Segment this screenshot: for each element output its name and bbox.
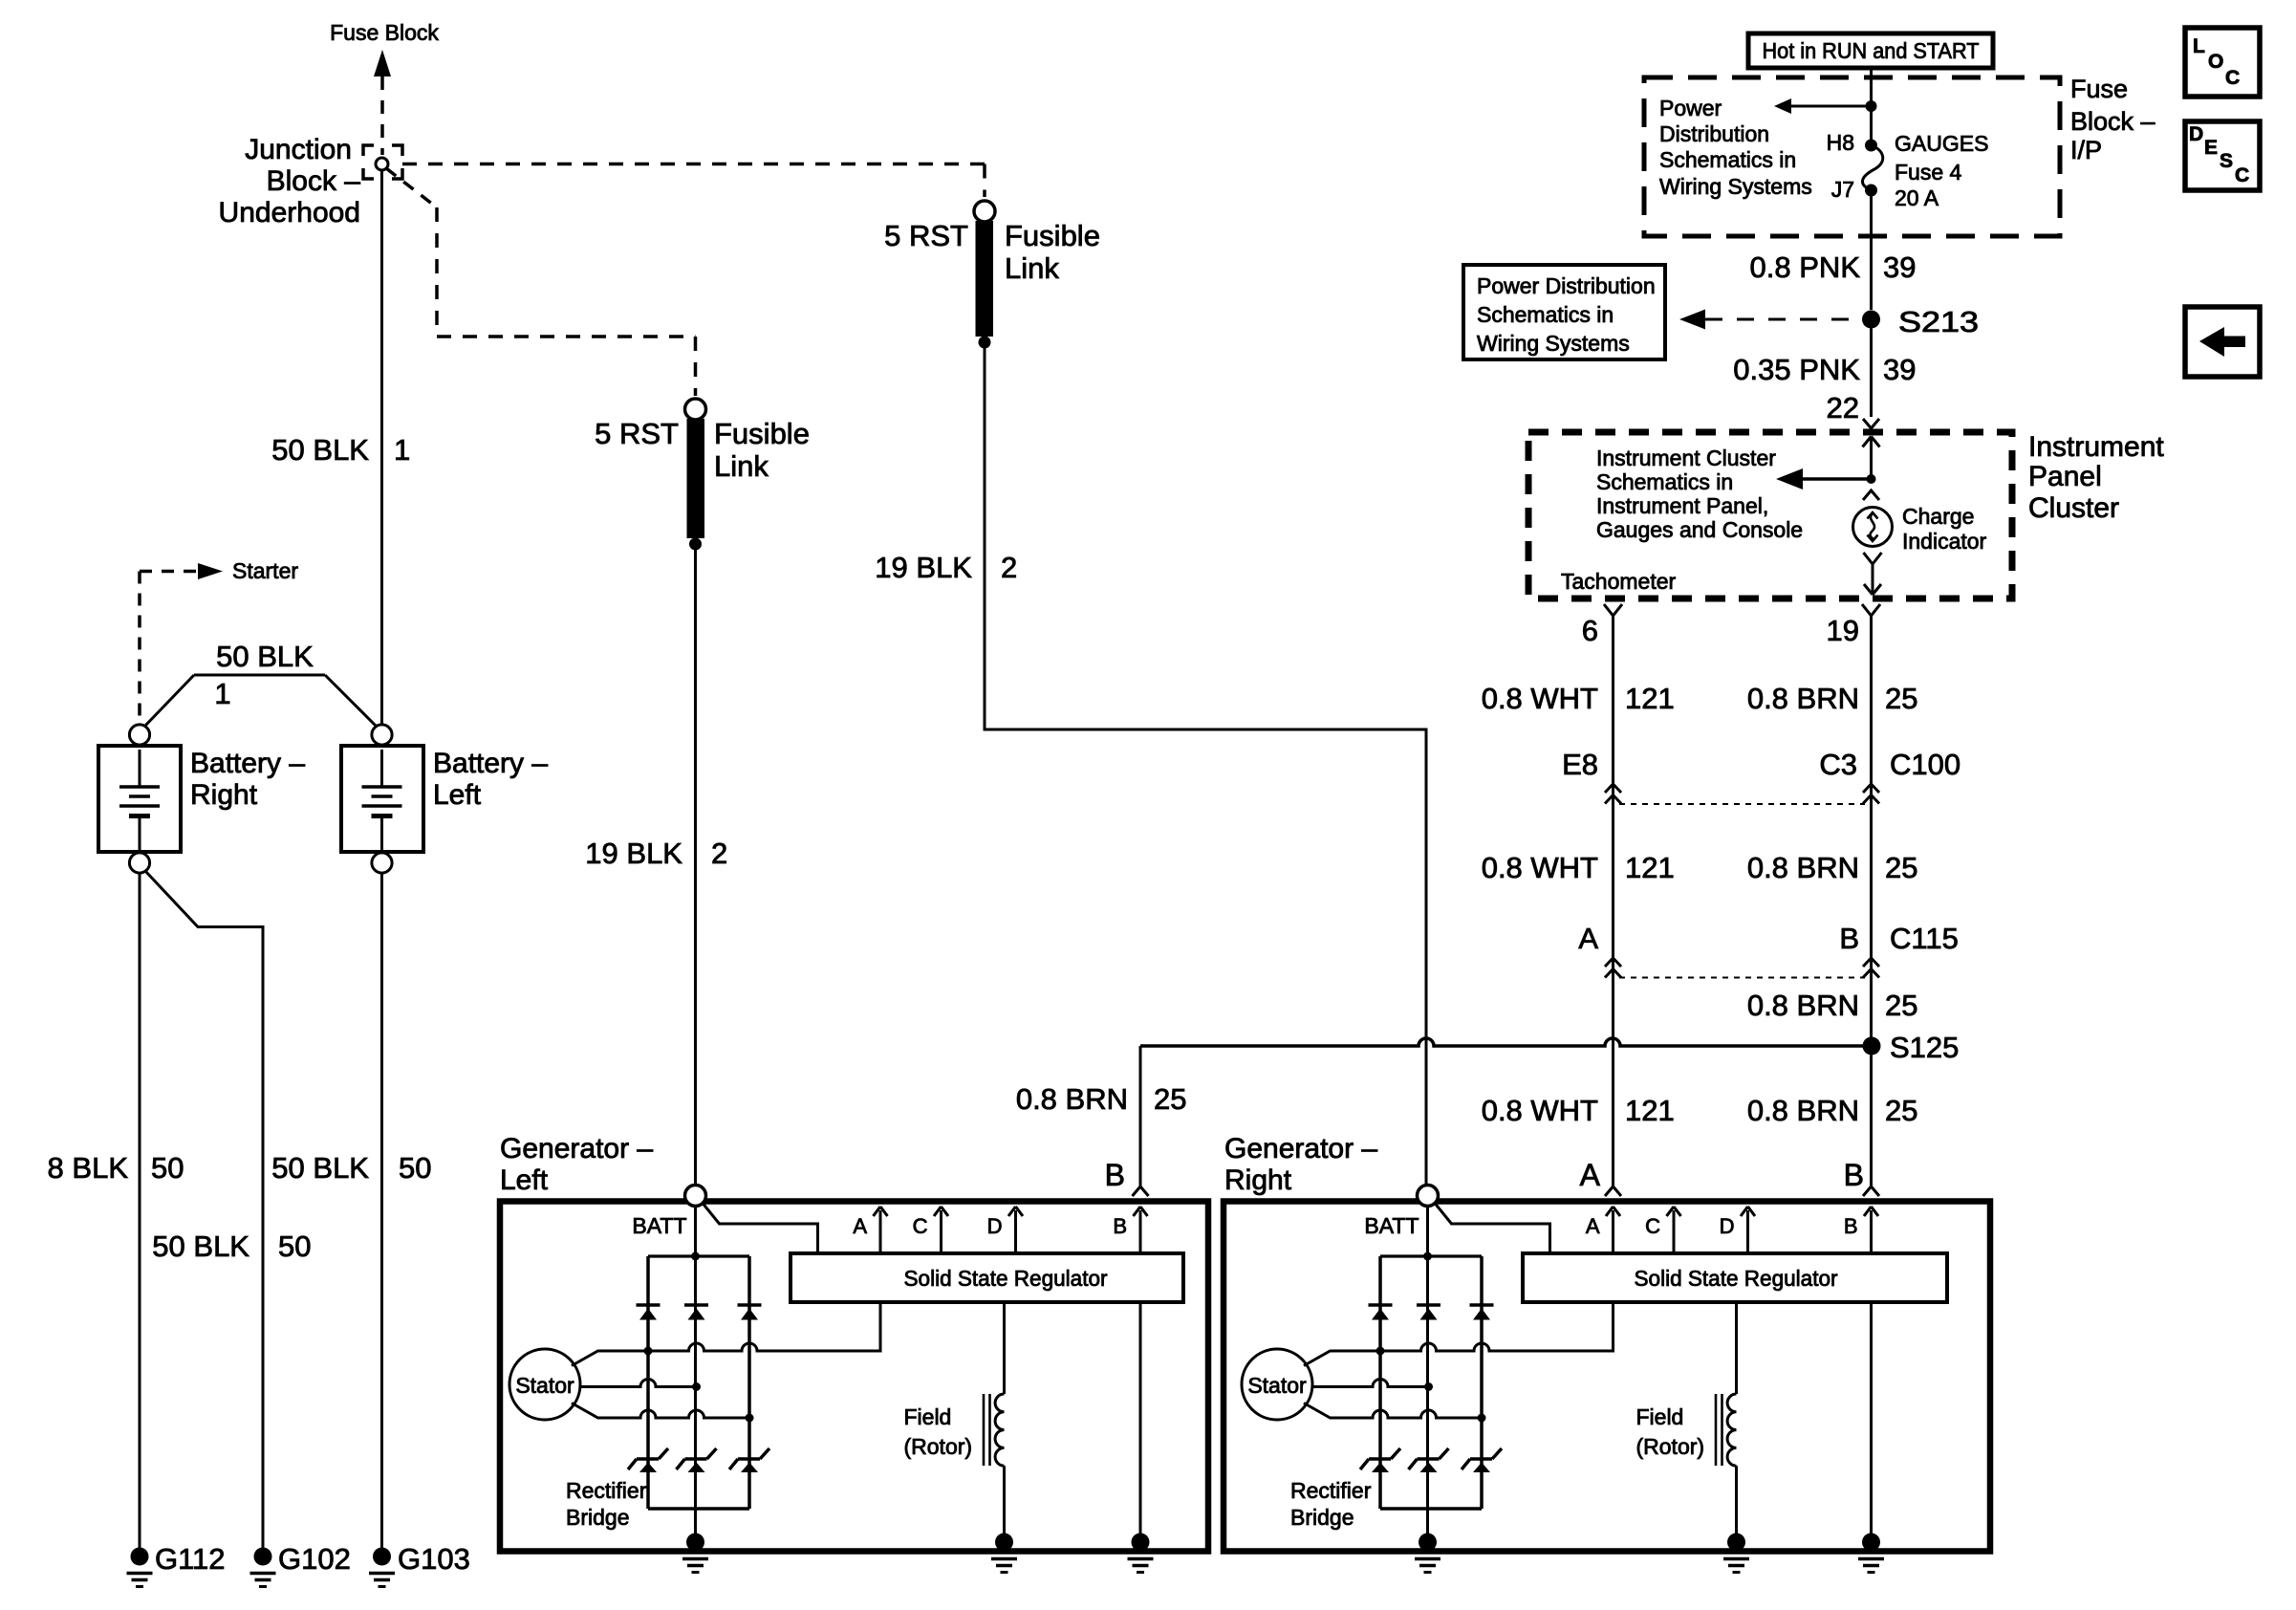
svg-text:Power Distribution: Power Distribution bbox=[1477, 273, 1656, 298]
ground at BATT (Generator - Left) bbox=[682, 1534, 708, 1573]
terminal arrow D (Generator - Right) bbox=[1741, 1207, 1755, 1253]
svg-text:(Rotor): (Rotor) bbox=[904, 1434, 973, 1459]
fuse name label bbox=[1895, 131, 1988, 210]
svg-text:0.8 WHT: 0.8 WHT bbox=[1482, 851, 1598, 884]
terminal arrow B (Generator - Left) bbox=[1134, 1207, 1148, 1253]
svg-text:50: 50 bbox=[399, 1151, 431, 1185]
svg-text:Tachometer: Tachometer bbox=[1561, 569, 1677, 594]
wire 50 BLK Battery - Right to G102 bbox=[145, 871, 263, 1553]
zener diode at x=1444.0 (Generator - Right) bbox=[1360, 1448, 1400, 1472]
svg-text:J7: J7 bbox=[1831, 177, 1854, 202]
svg-text:Field: Field bbox=[904, 1404, 952, 1429]
svg-text:Distribution: Distribution bbox=[1659, 121, 1769, 146]
fuse block - I/P (dashed box) bbox=[1644, 77, 2060, 236]
back arrow box bbox=[2185, 307, 2260, 377]
svg-text:121: 121 bbox=[1625, 682, 1675, 715]
svg-text:Cluster: Cluster bbox=[2028, 492, 2119, 524]
svg-text:Bridge: Bridge bbox=[1290, 1505, 1354, 1530]
wire 0.8 BRN charge indicator to Generator - Right B bbox=[1862, 604, 1880, 1186]
node + arrow to instrument cluster schematics bbox=[1776, 468, 1876, 490]
rectifier bridge label (Generator - Right) bbox=[1290, 1478, 1372, 1530]
svg-text:B: B bbox=[1844, 1214, 1858, 1238]
label 50 BLK 1 (jumper) bbox=[214, 640, 314, 710]
wire 50 BLK battery jumper bbox=[144, 675, 377, 727]
terminal 22 label bbox=[1827, 391, 1859, 424]
svg-text:Battery –: Battery – bbox=[190, 748, 305, 779]
svg-text:25: 25 bbox=[1885, 682, 1917, 715]
fuse block - I/P label bbox=[2070, 75, 2155, 164]
wire 0.8 BRN to Generator - Left B bbox=[1139, 1046, 1142, 1186]
terminal arrow C (Generator - Left) bbox=[934, 1207, 948, 1253]
svg-text:50 BLK: 50 BLK bbox=[271, 433, 369, 467]
svg-text:C100: C100 bbox=[1890, 748, 1960, 781]
wire BATT column to ground (Generator - Left) bbox=[691, 1207, 700, 1538]
field rotor label (Generator - Left) bbox=[904, 1404, 973, 1459]
stator (Generator - Right) bbox=[1242, 1349, 1312, 1420]
terminal arrow D (Generator - Left) bbox=[1008, 1207, 1023, 1253]
wire 0.8 PNK fuse to S213 bbox=[1870, 190, 1873, 310]
svg-text:A: A bbox=[853, 1214, 867, 1238]
svg-text:Power: Power bbox=[1659, 96, 1722, 120]
svg-text:6: 6 bbox=[1582, 614, 1598, 647]
connector C115 (chg side) bbox=[1863, 958, 1879, 978]
svg-text:Field: Field bbox=[1636, 1404, 1684, 1429]
svg-text:A: A bbox=[1578, 922, 1598, 955]
connector Y below charge indicator bbox=[1864, 553, 1882, 574]
svg-text:GAUGES: GAUGES bbox=[1895, 131, 1988, 156]
wire arrow into cluster bbox=[1863, 437, 1880, 480]
node stator-bottom junction (Generator - Right) bbox=[1478, 1414, 1486, 1423]
svg-text:8 BLK: 8 BLK bbox=[48, 1151, 129, 1185]
terminal arrow C (Generator - Right) bbox=[1667, 1207, 1681, 1253]
svg-text:20 A: 20 A bbox=[1895, 185, 1939, 210]
zener diode at x=728.5 (Generator - Left) bbox=[677, 1448, 717, 1472]
connector C100 dashed tie line bbox=[1619, 803, 1865, 805]
svg-text:5 RST: 5 RST bbox=[884, 219, 968, 252]
svg-text:50 BLK: 50 BLK bbox=[271, 1151, 369, 1185]
wire stator top to regulator A (Generator - Right) bbox=[1304, 1302, 1614, 1366]
wire B to case ground (Generator - Right) bbox=[1870, 1302, 1873, 1537]
svg-text:A: A bbox=[1586, 1214, 1600, 1238]
rectifier bridge frame (Generator - Right) bbox=[1380, 1256, 1482, 1509]
svg-text:Right: Right bbox=[1224, 1164, 1292, 1196]
svg-text:25: 25 bbox=[1885, 851, 1917, 884]
svg-text:0.8 WHT: 0.8 WHT bbox=[1482, 682, 1598, 715]
node stator-top junction (Generator - Right) bbox=[1376, 1347, 1385, 1356]
connector half at A (Generator - Right) bbox=[1605, 1186, 1621, 1196]
svg-text:Schematics in: Schematics in bbox=[1659, 147, 1796, 172]
svg-text:25: 25 bbox=[1885, 989, 1917, 1022]
zener diode at x=784.0 (Generator - Left) bbox=[729, 1448, 769, 1472]
svg-text:C3: C3 bbox=[1819, 748, 1857, 781]
label S125 bbox=[1890, 1031, 1959, 1064]
label 0.35 PNK 39 bbox=[1733, 353, 1916, 386]
svg-text:G103: G103 bbox=[398, 1542, 470, 1576]
label 0.8 WHT 121 (row 1) bbox=[1482, 682, 1675, 715]
svg-text:Fusible: Fusible bbox=[714, 417, 810, 450]
svg-text:0.35 PNK: 0.35 PNK bbox=[1733, 353, 1860, 386]
diode at x=728.5 (Generator - Left) bbox=[684, 1305, 708, 1320]
svg-text:0.8 BRN: 0.8 BRN bbox=[1747, 682, 1859, 715]
node stator-mid junction (Generator - Right) bbox=[1424, 1382, 1433, 1391]
hot in RUN and START box bbox=[1748, 33, 1993, 68]
svg-text:C: C bbox=[1645, 1214, 1660, 1238]
label S213 bbox=[1898, 305, 1979, 338]
wire stator bottom (Generator - Right) bbox=[1304, 1403, 1482, 1419]
connector C100 label bbox=[1819, 748, 1960, 781]
terminal arrow B (Generator - Right) bbox=[1864, 1207, 1878, 1253]
svg-text:Panel: Panel bbox=[2028, 461, 2102, 492]
svg-text:0.8 PNK: 0.8 PNK bbox=[1750, 250, 1861, 284]
node junction block terminal bbox=[376, 158, 388, 170]
svg-text:25: 25 bbox=[1154, 1082, 1186, 1116]
svg-text:C: C bbox=[2225, 67, 2240, 89]
fuse block label (top left) bbox=[330, 20, 439, 45]
battery B2 (Battery - Right) bbox=[98, 725, 181, 873]
svg-text:50 BLK: 50 BLK bbox=[216, 640, 314, 673]
svg-text:Schematics in: Schematics in bbox=[1596, 469, 1733, 494]
svg-text:22: 22 bbox=[1827, 391, 1859, 424]
node + arrow to power distribution schematics bbox=[1774, 98, 1877, 114]
svg-text:Instrument Cluster: Instrument Cluster bbox=[1596, 446, 1776, 470]
node S125 bbox=[1863, 1037, 1881, 1055]
solid state regulator (Generator - Left) bbox=[791, 1253, 1183, 1302]
connector half at B (Generator - Left) bbox=[1133, 1186, 1149, 1196]
wire from hot box into fuse block bbox=[1870, 68, 1873, 141]
svg-text:Link: Link bbox=[714, 449, 769, 483]
wire 50 BLK junction to Battery - Left bbox=[380, 170, 383, 725]
wire B to case ground (Generator - Left) bbox=[1139, 1302, 1142, 1537]
svg-text:D: D bbox=[987, 1214, 1003, 1238]
svg-text:Fusible: Fusible bbox=[1005, 219, 1100, 252]
label 0.8 WHT 121 (row 2) bbox=[1482, 851, 1675, 884]
svg-text:50: 50 bbox=[278, 1229, 311, 1263]
diode at x=1444.0 (Generator - Right) bbox=[1369, 1305, 1393, 1320]
label 0.8 WHT 121 (row 3) bbox=[1482, 1094, 1675, 1127]
svg-text:Fuse Block: Fuse Block bbox=[330, 20, 439, 45]
ground G103 bbox=[369, 1548, 395, 1587]
zener diode at x=1550.0 (Generator - Right) bbox=[1462, 1448, 1502, 1472]
svg-text:Schematics in: Schematics in bbox=[1477, 302, 1614, 327]
node stator-mid junction (Generator - Left) bbox=[692, 1382, 701, 1391]
generator label (Generator - Right) bbox=[1224, 1133, 1377, 1196]
connector C100 (tach side) bbox=[1605, 784, 1621, 804]
power distribution schematics box bbox=[1463, 265, 1665, 359]
svg-text:I/P: I/P bbox=[2070, 136, 2102, 164]
terminal arrow A (Generator - Right) bbox=[1606, 1207, 1620, 1253]
svg-text:Hot in RUN and START: Hot in RUN and START bbox=[1763, 38, 1980, 63]
diode at x=678.0 (Generator - Left) bbox=[637, 1305, 661, 1320]
BATT label (Generator - Right) bbox=[1364, 1213, 1419, 1238]
svg-text:Rectifier: Rectifier bbox=[1290, 1478, 1372, 1503]
connector half at B (Generator - Right) bbox=[1863, 1186, 1879, 1196]
svg-text:121: 121 bbox=[1625, 851, 1675, 884]
svg-text:S125: S125 bbox=[1890, 1031, 1959, 1064]
svg-text:Gauges and Console: Gauges and Console bbox=[1596, 517, 1803, 542]
terminal 19 label bbox=[1827, 614, 1859, 647]
battery left label bbox=[433, 748, 548, 811]
label 0.8 BRN 25 (row 4) bbox=[1747, 1094, 1918, 1127]
zener diode at x=1494.5 (Generator - Right) bbox=[1409, 1448, 1449, 1472]
svg-text:50 BLK: 50 BLK bbox=[152, 1229, 249, 1263]
DESC reference box bbox=[2185, 121, 2260, 190]
diode at x=1550.0 (Generator - Right) bbox=[1470, 1305, 1494, 1320]
wire 50 BLK Battery - Left to G103 bbox=[380, 873, 383, 1553]
terminal label B (Generator - Right) bbox=[1844, 1214, 1858, 1238]
connector C115 label bbox=[1839, 922, 1959, 955]
junction block label bbox=[219, 134, 361, 228]
svg-text:E8: E8 bbox=[1562, 748, 1598, 781]
label 5 RST Fusible Link (right) bbox=[884, 219, 1100, 285]
wire stator bottom (Generator - Left) bbox=[572, 1403, 749, 1419]
generator label (Generator - Left) bbox=[500, 1133, 653, 1196]
svg-text:D: D bbox=[1720, 1214, 1735, 1238]
label 50 BLK 50 (G103 wire) bbox=[271, 1151, 431, 1185]
zener diode at x=678.0 (Generator - Left) bbox=[628, 1448, 668, 1472]
terminal 6 label bbox=[1582, 614, 1598, 647]
svg-text:Starter: Starter bbox=[232, 558, 298, 583]
wire dashed arrow up to Fuse Block bbox=[374, 50, 391, 155]
terminal B label (generator left) bbox=[1105, 1158, 1125, 1192]
terminal A label (generator) bbox=[1580, 1158, 1601, 1192]
wire BATT to regulator (Generator - Left) bbox=[704, 1204, 818, 1253]
svg-text:B: B bbox=[1105, 1158, 1125, 1192]
svg-text:B: B bbox=[1113, 1214, 1127, 1238]
diode at x=1494.5 (Generator - Right) bbox=[1417, 1305, 1440, 1320]
node stator-bottom junction (Generator - Left) bbox=[746, 1414, 754, 1423]
svg-text:0.8 WHT: 0.8 WHT bbox=[1482, 1094, 1598, 1127]
wire 8 BLK Battery - Right to G112 bbox=[139, 873, 141, 1553]
label G102 bbox=[278, 1542, 351, 1576]
connector C115 dashed tie line bbox=[1619, 977, 1865, 979]
wire 19 BLK left fusible link to Generator - Left BATT bbox=[694, 544, 697, 1186]
wire BATT column to ground (Generator - Right) bbox=[1423, 1207, 1432, 1538]
label 0.8 BRN 25 (row 2) bbox=[1747, 851, 1918, 884]
connector half above charge indicator bbox=[1863, 490, 1879, 500]
svg-text:39: 39 bbox=[1883, 353, 1916, 386]
svg-text:C: C bbox=[2235, 164, 2249, 186]
pin J7 bbox=[1831, 177, 1854, 202]
label 0.8 PNK 39 bbox=[1750, 250, 1917, 284]
wire dashed arrow S213 to power distribution bbox=[1679, 310, 1862, 330]
svg-text:BATT: BATT bbox=[1364, 1213, 1419, 1238]
svg-text:Underhood: Underhood bbox=[219, 197, 360, 228]
instrument panel cluster label bbox=[2028, 431, 2164, 524]
svg-text:B: B bbox=[1839, 922, 1859, 955]
starter label bbox=[232, 558, 298, 583]
terminal E8 label bbox=[1562, 748, 1598, 781]
svg-text:5 RST: 5 RST bbox=[595, 417, 679, 450]
label 50 BLK 50 (G102 wire) bbox=[152, 1229, 311, 1263]
svg-text:Block –: Block – bbox=[267, 165, 361, 197]
power distribution schematics note (inside fuse block) bbox=[1659, 96, 1812, 199]
field rotor coil (Generator - Left) bbox=[984, 1302, 1005, 1537]
svg-text:Stator: Stator bbox=[1247, 1373, 1307, 1398]
ground at BATT (Generator - Right) bbox=[1415, 1534, 1440, 1573]
terminal label A (Generator - Left) bbox=[853, 1214, 867, 1238]
svg-text:G102: G102 bbox=[278, 1542, 351, 1576]
terminal label D (Generator - Left) bbox=[987, 1214, 1003, 1238]
svg-text:H8: H8 bbox=[1827, 130, 1854, 155]
terminal label A (Generator - Right) bbox=[1586, 1214, 1600, 1238]
label 19 BLK 2 (right) bbox=[875, 551, 1017, 584]
svg-text:O: O bbox=[2208, 51, 2223, 73]
svg-text:Indicator: Indicator bbox=[1902, 529, 1987, 554]
label G112 bbox=[155, 1542, 226, 1576]
svg-text:Block –: Block – bbox=[2070, 107, 2155, 136]
connector C115 (tach side) bbox=[1605, 958, 1621, 978]
svg-text:G112: G112 bbox=[155, 1542, 226, 1576]
svg-text:A: A bbox=[1580, 1158, 1601, 1192]
svg-text:Battery –: Battery – bbox=[433, 748, 548, 779]
wire stator mid (Generator - Left) bbox=[580, 1380, 697, 1387]
svg-text:1: 1 bbox=[214, 677, 230, 710]
svg-text:Charge: Charge bbox=[1902, 504, 1974, 529]
generator box (Generator - Right) bbox=[1224, 1202, 1990, 1552]
label 0.8 BRN 25 (gen left B) bbox=[1016, 1082, 1187, 1116]
svg-text:39: 39 bbox=[1883, 250, 1916, 284]
instrument cluster schematics note bbox=[1596, 446, 1803, 542]
svg-text:Left: Left bbox=[500, 1164, 549, 1196]
ground at B (Generator - Left) bbox=[1128, 1534, 1154, 1573]
svg-text:D: D bbox=[2189, 123, 2203, 145]
svg-text:Link: Link bbox=[1005, 251, 1059, 285]
battery B1 (Battery - Left) bbox=[341, 725, 423, 873]
svg-text:Generator –: Generator – bbox=[1224, 1133, 1377, 1164]
svg-text:25: 25 bbox=[1885, 1094, 1917, 1127]
svg-text:Wiring Systems: Wiring Systems bbox=[1659, 174, 1812, 199]
svg-text:Wiring Systems: Wiring Systems bbox=[1477, 331, 1630, 356]
ground at B (Generator - Right) bbox=[1858, 1534, 1884, 1573]
wire dashed Starter to Battery - Right bbox=[138, 572, 141, 725]
stator (Generator - Left) bbox=[509, 1349, 580, 1420]
charge indicator label bbox=[1902, 504, 1987, 554]
svg-text:Solid State Regulator: Solid State Regulator bbox=[904, 1266, 1108, 1291]
wire stator mid (Generator - Right) bbox=[1312, 1380, 1429, 1387]
connector C100 (chg side) bbox=[1863, 784, 1879, 804]
wire dashed junction diagonal + vertical to left fusible link bbox=[386, 168, 437, 337]
wire 0.35 PNK S213 to cluster bbox=[1870, 319, 1873, 417]
ground G112 bbox=[127, 1548, 153, 1587]
terminal arrow A (Generator - Left) bbox=[874, 1207, 888, 1253]
junction block - underhood (dashed outline) bbox=[363, 145, 402, 179]
svg-text:C: C bbox=[913, 1214, 928, 1238]
fusible link F1 (left, 5 RST) bbox=[685, 399, 706, 551]
svg-text:Left: Left bbox=[433, 779, 482, 811]
svg-text:B: B bbox=[1844, 1158, 1864, 1192]
svg-text:121: 121 bbox=[1625, 1094, 1675, 1127]
svg-text:Solid State Regulator: Solid State Regulator bbox=[1635, 1266, 1838, 1291]
svg-text:L: L bbox=[2193, 35, 2205, 57]
svg-text:Fuse: Fuse bbox=[2070, 75, 2128, 103]
ground at field (Generator - Right) bbox=[1723, 1534, 1749, 1573]
svg-text:C115: C115 bbox=[1890, 922, 1959, 955]
label 5 RST Fusible Link (left) bbox=[595, 417, 810, 483]
svg-text:19 BLK: 19 BLK bbox=[875, 551, 972, 584]
wire dashed to Starter (arrow) bbox=[140, 563, 223, 579]
label 8 BLK 50 bbox=[48, 1151, 184, 1185]
fusible link F2 (right, 5 RST) bbox=[974, 201, 995, 349]
terminal BATT circle (Generator - Right) bbox=[1418, 1186, 1439, 1207]
terminal BATT circle (Generator - Left) bbox=[685, 1186, 706, 1207]
svg-text:Instrument: Instrument bbox=[2028, 431, 2164, 463]
wire 0.8 WHT tachometer to Generator - Right A bbox=[1604, 604, 1622, 1186]
svg-text:0.8 BRN: 0.8 BRN bbox=[1747, 1094, 1859, 1127]
svg-text:BATT: BATT bbox=[632, 1213, 686, 1238]
generator box (Generator - Left) bbox=[500, 1202, 1208, 1552]
rectifier bridge frame (Generator - Left) bbox=[648, 1256, 749, 1509]
ground G102 bbox=[250, 1548, 276, 1587]
wire dashed horizontal + drop to left fusible link bbox=[437, 337, 696, 396]
ground at field (Generator - Left) bbox=[991, 1534, 1017, 1573]
instrument panel cluster (dashed box) bbox=[1528, 432, 2012, 598]
indicator LAMP (Charge Indicator) bbox=[1853, 508, 1893, 547]
terminal label C (Generator - Left) bbox=[913, 1214, 928, 1238]
node S213 bbox=[1862, 311, 1880, 329]
wire 0.8 BRN S125 branch (horizontal) bbox=[1140, 1038, 1872, 1046]
svg-text:S213: S213 bbox=[1898, 305, 1979, 338]
wire 19 BLK right fusible link to Generator - Right BATT bbox=[985, 342, 1426, 1186]
label 0.8 BRN 25 (row 3) bbox=[1747, 989, 1918, 1022]
LOC reference box bbox=[2185, 28, 2260, 97]
solid state regulator (Generator - Right) bbox=[1523, 1253, 1947, 1302]
pin H8 bbox=[1827, 130, 1854, 155]
node stator-top junction (Generator - Left) bbox=[644, 1347, 653, 1356]
wire arrow to cluster edge bbox=[1864, 574, 1881, 595]
svg-text:(Rotor): (Rotor) bbox=[1636, 1434, 1705, 1459]
terminal label B (Generator - Left) bbox=[1113, 1214, 1127, 1238]
svg-text:E: E bbox=[2204, 137, 2218, 159]
label G103 bbox=[398, 1542, 470, 1576]
wire BATT to regulator (Generator - Right) bbox=[1436, 1204, 1550, 1253]
terminal label C (Generator - Right) bbox=[1645, 1214, 1660, 1238]
svg-text:2: 2 bbox=[711, 837, 727, 870]
terminal B label (generator right) bbox=[1844, 1158, 1864, 1192]
label 19 BLK 2 (left) bbox=[585, 837, 727, 870]
wire stator top to regulator A (Generator - Left) bbox=[572, 1302, 880, 1366]
svg-text:Right: Right bbox=[190, 779, 258, 811]
tachometer label bbox=[1561, 569, 1677, 594]
svg-text:Instrument Panel,: Instrument Panel, bbox=[1596, 493, 1768, 518]
svg-text:Bridge: Bridge bbox=[566, 1505, 629, 1530]
battery right label bbox=[190, 748, 305, 811]
connector half at cluster (wire side) bbox=[1863, 419, 1879, 428]
rectifier bridge label (Generator - Left) bbox=[566, 1478, 647, 1530]
wire dashed drop to right fusible link bbox=[983, 164, 986, 198]
svg-text:0.8 BRN: 0.8 BRN bbox=[1747, 851, 1859, 884]
svg-text:Junction: Junction bbox=[245, 134, 352, 165]
terminal label D (Generator - Right) bbox=[1720, 1214, 1735, 1238]
label 50 BLK 1 (vertical wire) bbox=[271, 433, 410, 467]
svg-text:2: 2 bbox=[1001, 551, 1017, 584]
svg-text:Rectifier: Rectifier bbox=[566, 1478, 647, 1503]
svg-text:19: 19 bbox=[1827, 614, 1859, 647]
svg-text:19 BLK: 19 BLK bbox=[585, 837, 682, 870]
svg-text:Stator: Stator bbox=[515, 1373, 574, 1398]
svg-text:1: 1 bbox=[394, 433, 410, 467]
label 0.8 BRN 25 (row 1) bbox=[1747, 682, 1918, 715]
svg-text:0.8 BRN: 0.8 BRN bbox=[1016, 1082, 1128, 1116]
terminal A label (C115) bbox=[1578, 922, 1598, 955]
wire dashed junction to right fusible link (horizontal) bbox=[402, 163, 985, 166]
svg-text:50: 50 bbox=[151, 1151, 184, 1185]
diode at x=784.0 (Generator - Left) bbox=[738, 1305, 762, 1320]
fuse F4 (GAUGES Fuse 4 20 A) bbox=[1862, 140, 1882, 197]
svg-text:Generator –: Generator – bbox=[500, 1133, 653, 1164]
field rotor coil (Generator - Right) bbox=[1716, 1302, 1737, 1537]
svg-text:S: S bbox=[2220, 150, 2233, 172]
BATT label (Generator - Left) bbox=[632, 1213, 686, 1238]
